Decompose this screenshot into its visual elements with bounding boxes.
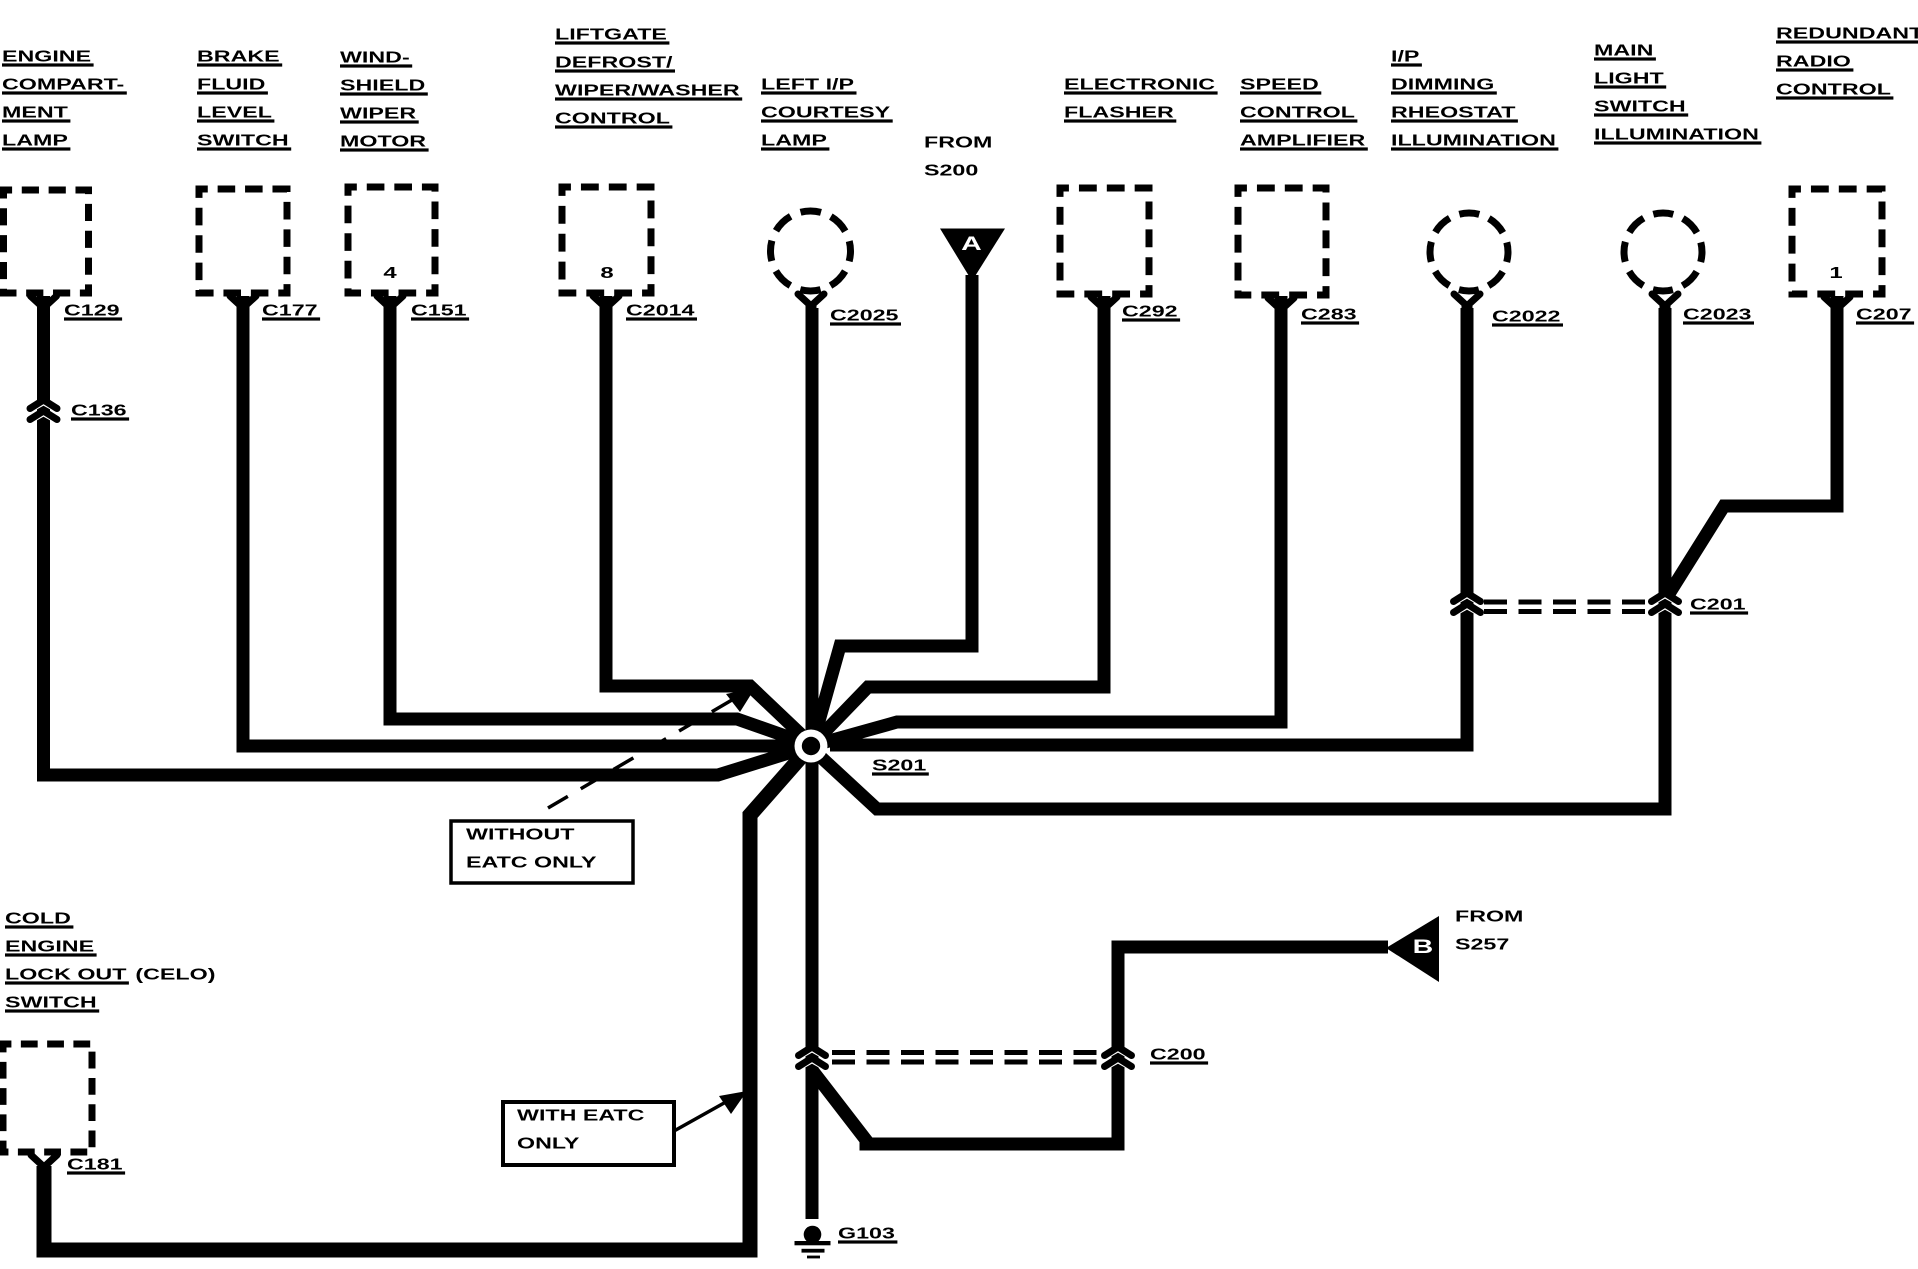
svg-text:LEVEL: LEVEL [197, 104, 272, 121]
svg-text:COURTESY: COURTESY [761, 104, 891, 121]
svg-text:(CELO): (CELO) [135, 966, 215, 983]
svg-text:S257: S257 [1455, 936, 1509, 953]
svg-text:LEFT I/P: LEFT I/P [761, 76, 854, 93]
svg-text:LAMP: LAMP [761, 132, 827, 149]
svg-text:ILLUMINATION: ILLUMINATION [1391, 132, 1556, 149]
svg-text:FLASHER: FLASHER [1064, 104, 1174, 121]
svg-text:8: 8 [600, 265, 613, 282]
svg-text:C181: C181 [67, 1156, 123, 1173]
svg-text:4: 4 [383, 265, 396, 282]
svg-text:1: 1 [1829, 265, 1842, 282]
svg-text:S200: S200 [924, 162, 978, 179]
svg-text:COLD: COLD [5, 910, 71, 927]
svg-text:ELECTRONIC: ELECTRONIC [1064, 76, 1215, 93]
svg-text:C292: C292 [1122, 303, 1178, 320]
svg-text:SPEED: SPEED [1240, 76, 1319, 93]
svg-text:C2023: C2023 [1683, 306, 1752, 323]
svg-text:WIPER: WIPER [340, 105, 416, 122]
svg-text:C201: C201 [1690, 596, 1746, 613]
svg-text:ONLY: ONLY [517, 1135, 580, 1152]
svg-text:FLUID: FLUID [197, 76, 265, 93]
svg-text:DEFROST/: DEFROST/ [555, 54, 674, 71]
svg-text:LIGHT: LIGHT [1594, 70, 1664, 87]
svg-text:FROM: FROM [1455, 908, 1523, 925]
svg-text:RADIO: RADIO [1776, 53, 1851, 70]
svg-text:BRAKE: BRAKE [197, 48, 280, 65]
svg-text:SWITCH: SWITCH [1594, 98, 1686, 115]
svg-text:FROM: FROM [924, 134, 992, 151]
svg-text:WIPER/WASHER: WIPER/WASHER [555, 82, 740, 99]
svg-text:RHEOSTAT: RHEOSTAT [1391, 104, 1516, 121]
svg-text:C136: C136 [71, 402, 127, 419]
svg-text:ILLUMINATION: ILLUMINATION [1594, 126, 1759, 143]
svg-text:ENGINE: ENGINE [2, 48, 91, 65]
svg-text:I/P: I/P [1391, 48, 1419, 65]
svg-text:LAMP: LAMP [2, 132, 68, 149]
svg-text:LIFTGATE: LIFTGATE [555, 26, 667, 43]
svg-text:CONTROL: CONTROL [1240, 104, 1355, 121]
svg-text:MOTOR: MOTOR [340, 133, 426, 150]
svg-text:B: B [1413, 937, 1434, 958]
svg-text:MENT: MENT [2, 104, 69, 121]
svg-text:ENGINE: ENGINE [5, 938, 94, 955]
svg-text:S201: S201 [872, 757, 927, 774]
svg-text:WITH EATC: WITH EATC [517, 1107, 644, 1124]
svg-text:C2025: C2025 [830, 307, 899, 324]
svg-text:REDUNDANT: REDUNDANT [1776, 25, 1918, 42]
svg-text:DIMMING: DIMMING [1391, 76, 1494, 93]
svg-text:C2014: C2014 [626, 302, 695, 319]
svg-text:CONTROL: CONTROL [1776, 81, 1891, 98]
svg-text:SWITCH: SWITCH [5, 994, 97, 1011]
svg-text:EATC ONLY: EATC ONLY [466, 854, 597, 871]
svg-text:C207: C207 [1856, 306, 1912, 323]
svg-text:C129: C129 [64, 302, 120, 319]
svg-text:C200: C200 [1150, 1046, 1206, 1063]
svg-text:LOCK OUT: LOCK OUT [5, 966, 127, 983]
svg-text:WITHOUT: WITHOUT [466, 826, 575, 843]
svg-text:WIND-: WIND- [340, 49, 410, 66]
svg-text:COMPART-: COMPART- [2, 76, 124, 93]
svg-text:C151: C151 [411, 302, 467, 319]
svg-text:CONTROL: CONTROL [555, 110, 670, 127]
svg-text:C283: C283 [1301, 306, 1357, 323]
svg-text:A: A [961, 234, 982, 255]
svg-text:SHIELD: SHIELD [340, 77, 425, 94]
svg-text:C2022: C2022 [1492, 308, 1561, 325]
svg-text:G103: G103 [838, 1225, 895, 1242]
svg-text:AMPLIFIER: AMPLIFIER [1240, 132, 1365, 149]
svg-text:MAIN: MAIN [1594, 42, 1653, 59]
svg-text:C177: C177 [262, 302, 318, 319]
svg-text:SWITCH: SWITCH [197, 132, 289, 149]
